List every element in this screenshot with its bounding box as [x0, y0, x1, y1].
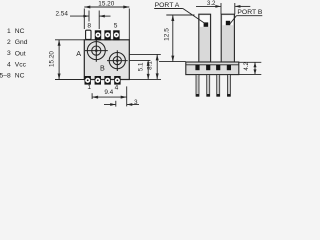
svg-text:PORT A: PORT A — [155, 2, 180, 9]
svg-text:B: B — [100, 63, 105, 72]
svg-text:NC: NC — [15, 28, 25, 35]
pin 8 pad (top view) — [86, 30, 91, 39]
pin 3 pad — [104, 76, 110, 85]
svg-text:15.20: 15.20 — [48, 51, 55, 67]
dimension 8.1 — [156, 54, 158, 79]
svg-text:4.2: 4.2 — [243, 61, 250, 70]
pin 4 pad — [114, 76, 120, 85]
svg-text:8: 8 — [87, 22, 91, 29]
svg-text:1: 1 — [7, 28, 11, 35]
extension lines from ports to right — [129, 54, 161, 79]
svg-text:Out: Out — [15, 50, 26, 57]
svg-text:NC: NC — [15, 73, 25, 80]
dimension 4.2 (body height side) — [239, 62, 261, 74]
pin 1 pad (bottom row) — [85, 76, 91, 85]
svg-text:12.5: 12.5 — [164, 28, 171, 41]
dimension 15.20 (left height) — [55, 40, 84, 80]
pin 2 pad — [95, 76, 101, 85]
svg-text:3: 3 — [7, 50, 11, 57]
side view: port A tube — [199, 14, 211, 62]
side view: port B tube — [221, 14, 234, 62]
svg-text:5.1: 5.1 — [137, 62, 144, 71]
dimension 5.1 — [147, 60, 149, 79]
port A (top view) — [85, 40, 108, 62]
svg-text:PORT B: PORT B — [237, 9, 263, 16]
svg-text:4: 4 — [115, 84, 119, 91]
svg-text:1: 1 — [87, 84, 91, 91]
pin 7 pad — [95, 30, 101, 40]
svg-text:8.1: 8.1 — [147, 61, 154, 70]
dimension 3 (bottom right) — [104, 101, 139, 107]
side view: pin stubs inside body — [195, 65, 231, 70]
dimension 15.20 (top width) — [84, 7, 129, 40]
svg-text:Gnd: Gnd — [15, 39, 28, 46]
svg-text:Vcc: Vcc — [15, 62, 27, 69]
svg-text:2: 2 — [7, 39, 11, 46]
dimension 12.5 — [159, 15, 195, 62]
svg-text:A: A — [76, 49, 81, 58]
svg-text:2.54: 2.54 — [55, 10, 68, 17]
port B (top view) — [107, 50, 128, 71]
svg-text:5: 5 — [114, 23, 118, 30]
side view: body — [186, 62, 239, 75]
package body top view — [84, 40, 129, 80]
pin 6 pad — [104, 30, 110, 40]
dimension 3.2 (tube width) — [196, 3, 250, 14]
dimension 2.54 (pin pitch) — [70, 11, 111, 30]
svg-text:5–8: 5–8 — [0, 73, 11, 80]
dimension 9.4 (bottom) — [92, 86, 127, 106]
pin list — [0, 28, 28, 80]
svg-text:3.2: 3.2 — [207, 0, 216, 7]
svg-text:3: 3 — [134, 99, 138, 106]
side view: pins — [196, 75, 230, 97]
svg-text:4: 4 — [7, 61, 11, 68]
svg-text:15.20: 15.20 — [98, 0, 114, 7]
svg-text:9.4: 9.4 — [104, 89, 113, 96]
pin 5 pad — [113, 30, 119, 40]
